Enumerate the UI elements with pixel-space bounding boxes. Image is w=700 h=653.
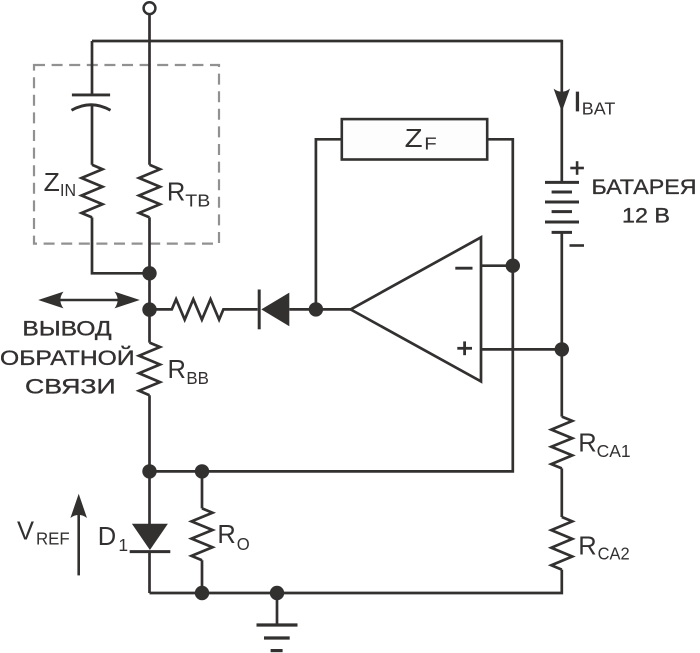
diode D_FB triangle [261, 293, 289, 327]
node non-inverting input [555, 342, 569, 356]
resistor R_CA1 [551, 417, 572, 469]
svg-text:БАТАРЕЯ: БАТАРЕЯ [592, 176, 697, 199]
battery minus mark [570, 244, 585, 247]
svg-text:Z: Z [44, 169, 60, 197]
arrow I_BAT [554, 89, 570, 112]
battery plus mark [570, 167, 584, 170]
resistor Z_IN [82, 165, 103, 218]
svg-text:TB: TB [185, 191, 210, 211]
battery BT1 plates [545, 181, 579, 184]
wire R_O to bottom bus [201, 560, 204, 593]
svg-text:BAT: BAT [582, 99, 616, 119]
svg-text:СВЯЗИ: СВЯЗИ [25, 376, 116, 399]
node lower bus (R_O top) [195, 464, 209, 478]
wire terminal to R_TB branch [148, 14, 151, 165]
node feedback tap [142, 302, 156, 316]
wire capacitor to Z_IN [91, 105, 94, 165]
Z_F box [342, 119, 487, 159]
terminal (input post) [144, 2, 156, 14]
capacitor C (top plate) [72, 93, 110, 96]
svg-text:REF: REF [36, 529, 70, 549]
svg-text:IN: IN [60, 180, 76, 200]
svg-text:12 В: 12 В [622, 204, 670, 227]
node op-amp output [309, 302, 323, 316]
svg-text:R: R [168, 356, 186, 384]
wire R_BB to lower node [148, 395, 151, 471]
wire battery to R_CA1 [560, 232, 563, 416]
wire bottom bus [150, 570, 562, 593]
wire Z_F left leg [316, 139, 342, 309]
svg-text:V: V [17, 518, 34, 546]
svg-text:Z: Z [405, 125, 423, 153]
wire capacitor drop [91, 41, 94, 95]
wire inverting input [481, 264, 513, 267]
wire R_CA1 to R_CA2 [560, 468, 563, 517]
diode D1 cathode bar [130, 550, 171, 553]
node bottom bus (R_O) [195, 586, 209, 600]
resistor R_FB (series feedback) [150, 299, 258, 319]
svg-text:ВЫВОД: ВЫВОД [22, 318, 111, 341]
wire Z_IN to junction [92, 217, 150, 273]
resistor R_CA2 [551, 517, 572, 570]
resistor R_BB [139, 343, 160, 396]
svg-text:F: F [424, 134, 437, 154]
svg-text:1: 1 [118, 535, 128, 555]
wire diode to op-amp output [289, 308, 350, 311]
wire R_O branch [201, 471, 204, 508]
svg-text:R: R [578, 533, 596, 561]
resistor R_O [192, 508, 213, 560]
svg-text:I: I [574, 86, 582, 117]
svg-text:ОБРАТНОЙ: ОБРАТНОЙ [0, 346, 135, 370]
resistor R_TB [139, 165, 160, 218]
wire D1 branch top [148, 471, 151, 524]
wire R_TB to feedback node [148, 217, 151, 342]
svg-text:CA2: CA2 [598, 544, 630, 564]
capacitor C (curved plate) [72, 105, 111, 111]
wire non-inverting input [481, 348, 562, 351]
op-amp minus sign [455, 267, 472, 270]
diode D_FB cathode bar [258, 290, 261, 330]
svg-text:R: R [578, 430, 596, 458]
svg-text:R: R [167, 179, 185, 207]
node inverting input [506, 259, 520, 273]
svg-text:BB: BB [186, 368, 209, 388]
svg-text:O: O [237, 534, 250, 554]
op-amp plus sign [457, 347, 472, 350]
svg-text:D: D [98, 523, 116, 551]
wire Z_F right leg down to lower bus [150, 139, 513, 471]
node junction (cap branch) [142, 266, 156, 280]
ground [276, 593, 279, 624]
wire D1 to bottom bus [148, 552, 151, 593]
wire battery top drop [560, 40, 563, 182]
dashed box (input network) [34, 65, 219, 244]
node bottom bus (ground) [270, 586, 284, 600]
wire top horizontal [92, 40, 562, 43]
svg-text:CA1: CA1 [597, 441, 631, 461]
svg-text:R: R [217, 521, 235, 549]
node lower bus left (D1 top) [142, 464, 156, 478]
op-amp U1 [351, 237, 481, 381]
feedback arrow (double headed) [58, 299, 120, 302]
diode D1 triangle [132, 524, 168, 550]
arrow V_REF [77, 512, 80, 575]
